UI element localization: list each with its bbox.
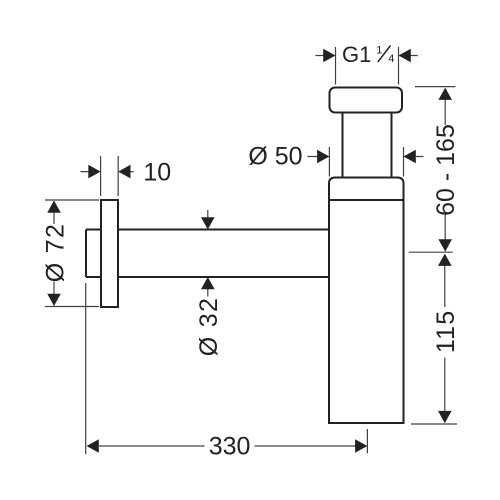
svg-text:G1: G1 bbox=[342, 42, 371, 67]
svg-text:1: 1 bbox=[376, 44, 382, 56]
svg-text:Ø 32: Ø 32 bbox=[195, 297, 223, 356]
svg-text:115: 115 bbox=[432, 310, 460, 353]
svg-text:Ø 50: Ø 50 bbox=[248, 143, 302, 171]
svg-text:330: 330 bbox=[209, 433, 251, 461]
svg-text:10: 10 bbox=[143, 159, 171, 187]
svg-text:60 - 165: 60 - 165 bbox=[432, 124, 460, 216]
svg-text:Ø 72: Ø 72 bbox=[41, 223, 69, 282]
svg-text:4: 4 bbox=[388, 53, 394, 65]
